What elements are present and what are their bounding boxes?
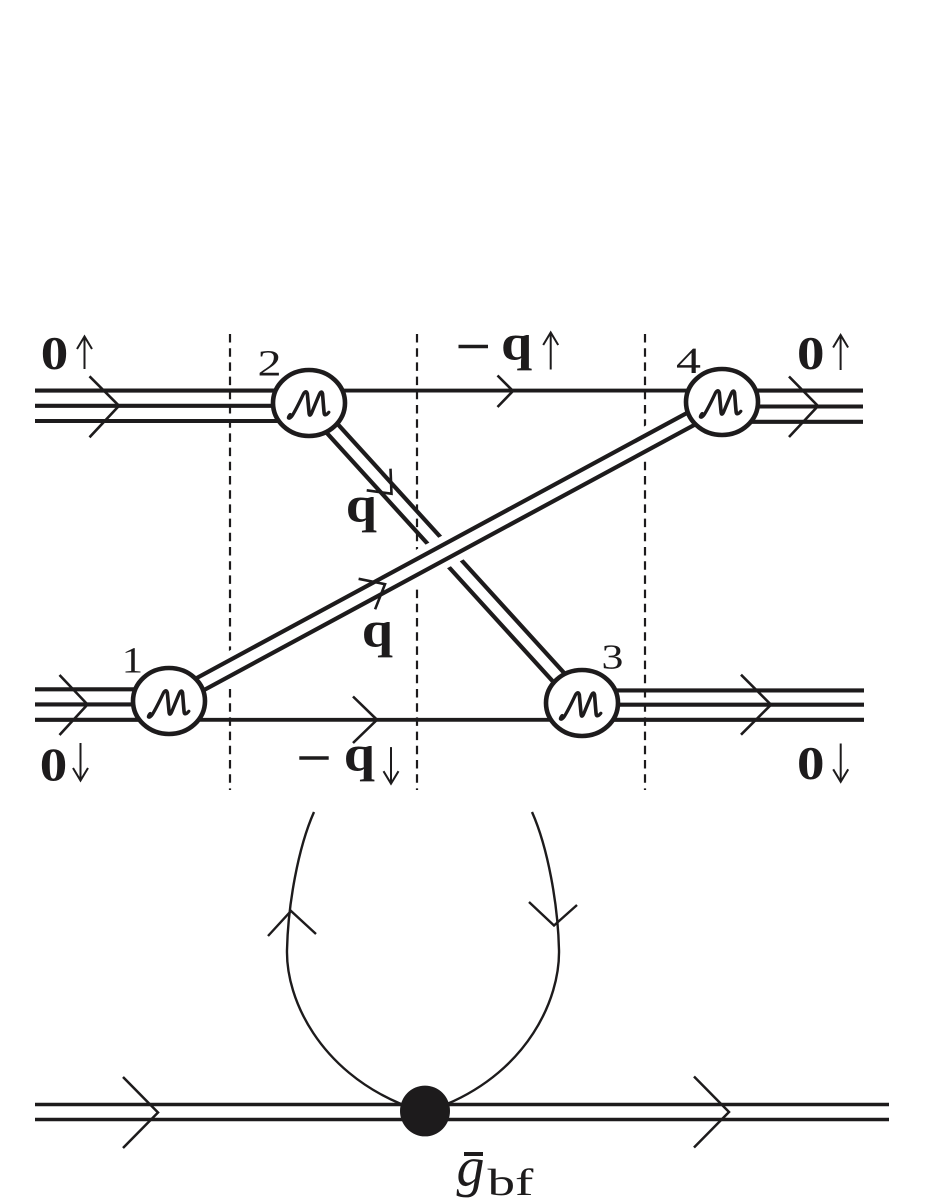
svg-text:0: 0 [41,328,68,380]
svg-text:2: 2 [258,343,282,384]
svg-text:g: g [457,1137,485,1199]
svg-text:3: 3 [602,638,624,677]
svg-text:1: 1 [122,640,143,681]
svg-text:q: q [501,316,532,372]
svg-text:0: 0 [797,328,824,380]
svg-text:q: q [344,726,375,782]
svg-text:q: q [346,477,377,533]
svg-text:0: 0 [40,739,67,791]
svg-text:4: 4 [676,341,701,382]
svg-text:0: 0 [797,738,824,790]
svg-text:bf: bf [488,1162,534,1200]
svg-text:q: q [362,603,393,659]
